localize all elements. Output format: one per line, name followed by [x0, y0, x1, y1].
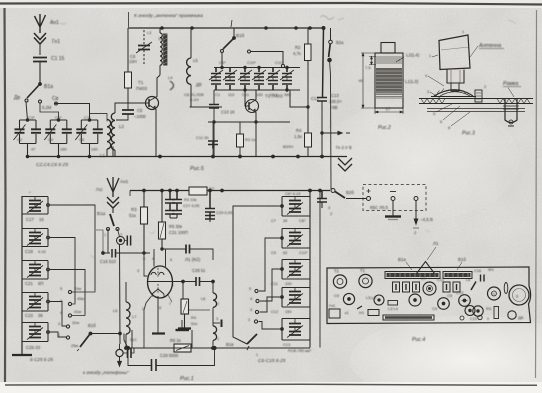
- svg-text:В1а: В1а: [97, 211, 106, 216]
- tank section 3 (C6* / C7): [75, 119, 103, 157]
- svg-text:L1: L1: [100, 153, 105, 158]
- svg-text:С29 5000: С29 5000: [160, 353, 179, 358]
- coupling loop mark: [170, 81, 174, 90]
- leader В1б: [457, 262, 462, 270]
- border frame bottom: [5, 384, 537, 385]
- svg-text:С8*: С8*: [299, 218, 306, 223]
- right bank rail: [309, 189, 312, 347]
- caps C29 pair: [205, 191, 215, 223]
- coil former top nub: [381, 43, 395, 54]
- emitter wire to bus: [155, 118, 157, 157]
- caps right pair at bus: [317, 191, 327, 209]
- wire collector to R2: [287, 90, 308, 107]
- small caps row C12 C14: [443, 282, 460, 292]
- svg-text:В1в: В1в: [226, 342, 234, 347]
- svg-text:7: 7: [169, 302, 171, 306]
- leader Л1 top: [427, 247, 436, 260]
- svg-text:Гн 2-У В: Гн 2-У В: [336, 145, 352, 150]
- wire L5 bottom to T2 emitter region: [190, 106, 222, 108]
- coil L8 output: [213, 282, 217, 348]
- svg-text:6,2М: 6,2М: [42, 105, 52, 110]
- bank staircase wires: [259, 238, 281, 329]
- svg-text:С17: С17: [26, 217, 34, 222]
- svg-text:2: 2: [217, 302, 219, 306]
- vertical cap bar right: [504, 283, 508, 294]
- grid line and junction: [172, 280, 214, 283]
- svg-text:С12: С12: [271, 309, 278, 314]
- potentiometer R6: [174, 344, 191, 352]
- arrow -4,5В: [413, 201, 419, 229]
- svg-text:L4: L4: [168, 75, 173, 80]
- svg-text:С2,С4,С6 6-25: С2,С4,С6 6-25: [36, 162, 68, 168]
- svg-text:3: 3: [216, 317, 218, 321]
- stem block: [447, 70, 464, 92]
- svg-text:Л1: Л1: [433, 241, 439, 246]
- top supply bus: [128, 12, 325, 30]
- svg-text:С12: С12: [311, 96, 319, 101]
- svg-text:В2а: В2а: [336, 40, 344, 45]
- transistor Т2 circle: [359, 274, 372, 287]
- capacitor C12 on +rail: [317, 28, 327, 134]
- svg-text:С13: С13: [283, 342, 290, 347]
- bank bottom to bus: [310, 340, 320, 348]
- svg-text:L7: L7: [132, 314, 137, 319]
- svg-text:В1б: В1б: [458, 257, 466, 262]
- socket Гн1 (fig1): [107, 197, 119, 213]
- transistor T2: [245, 90, 259, 122]
- cap С5 circle: [343, 293, 354, 304]
- svg-text:6-С25 6-25: 6-С25 6-25: [30, 357, 53, 362]
- svg-text:С16: С16: [474, 269, 481, 273]
- cap pair C16*/C17: [266, 68, 280, 91]
- svg-text:1: 1: [172, 283, 174, 287]
- tank C21/C22: [22, 261, 49, 280]
- svg-text:40: 40: [359, 78, 364, 83]
- svg-text:100: 100: [285, 281, 292, 286]
- svg-text:5: 5: [60, 286, 62, 291]
- svg-text:31м: 31м: [72, 320, 79, 325]
- battery terminal +: [367, 189, 371, 201]
- border frame left: [5, 8, 6, 382]
- border frame right: [536, 10, 537, 378]
- svg-text:Т2: Т2: [334, 269, 340, 274]
- svg-text:С7: С7: [271, 218, 276, 223]
- svg-text:R4: R4: [296, 128, 302, 133]
- capacitor C10 emitter: [209, 90, 219, 122]
- svg-text:С13: С13: [456, 290, 464, 295]
- tank section 2 (C4* / C5): [44, 119, 72, 157]
- svg-text:16: 16: [39, 217, 44, 222]
- antenna Ан1 (fig1): [107, 177, 119, 197]
- svg-text:2: 2: [248, 318, 250, 322]
- svg-text:Рис.5: Рис.5: [190, 166, 205, 172]
- output arrow to receiver: [322, 131, 350, 134]
- svg-text:С6* 4-15: С6* 4-15: [285, 191, 300, 196]
- svg-text:L3: L3: [147, 31, 151, 35]
- svg-text:Дв: Дв: [14, 95, 20, 101]
- trimmer С7 circle: [423, 282, 436, 295]
- svg-text:L5,L6: L5,L6: [366, 295, 377, 300]
- svg-text:КБС Л0,5: КБС Л0,5: [370, 205, 389, 210]
- svg-text:С6-С15 6-25: С6-С15 6-25: [258, 358, 286, 364]
- svg-text:Т2 П403: Т2 П403: [265, 94, 283, 99]
- winding band 2 dense: [376, 68, 402, 94]
- svg-text:Т1: Т1: [360, 268, 366, 273]
- svg-text:5: 5: [249, 287, 251, 291]
- switch В1а (fig1): [107, 214, 120, 231]
- battery dashed box: [363, 185, 426, 211]
- bank tank 4: [281, 288, 310, 308]
- ground R4: [176, 320, 190, 330]
- tank C19/C20: [22, 229, 49, 247]
- L8 diagonal mark: [471, 282, 476, 291]
- svg-text:R2: R2: [209, 186, 215, 191]
- svg-text:8: 8: [159, 306, 161, 310]
- svg-text:0: 0: [487, 317, 489, 321]
- bank tank 2: [281, 229, 310, 249]
- svg-text:R4: R4: [191, 315, 197, 320]
- svg-text:Св: Св: [52, 96, 59, 102]
- svg-text:4,7к: 4,7к: [293, 51, 301, 56]
- svg-text:150: 150: [285, 309, 292, 314]
- cap pair C8*/C9: [209, 68, 223, 91]
- coil L2: [111, 103, 122, 157]
- svg-text:С2: С2: [17, 137, 23, 142]
- caps C28 pair: [170, 191, 182, 219]
- leader L1(L3): [403, 79, 404, 81]
- terminal circle top right: [331, 189, 335, 193]
- winding band 3: [376, 95, 402, 99]
- svg-text:С9*: С9*: [219, 60, 226, 65]
- T2 tank cap bank top bus: [214, 66, 300, 68]
- svg-text:С9: С9: [432, 306, 438, 311]
- wire R4 to coil: [189, 309, 211, 311]
- svg-text:ДВ: ДВ: [196, 82, 202, 87]
- svg-text:L8: L8: [466, 278, 470, 282]
- svg-text:С5*: С5*: [55, 115, 62, 120]
- switch В2б: [335, 192, 366, 199]
- tank C23/C24: [22, 293, 49, 312]
- svg-text:62: 62: [283, 250, 287, 255]
- tank bank bottom bus: [214, 89, 300, 91]
- small rect mid: [388, 301, 398, 306]
- ground cathode: [152, 325, 165, 334]
- svg-text:Гн1: Гн1: [96, 187, 103, 192]
- svg-text:Рис.3: Рис.3: [462, 131, 475, 137]
- svg-text:С10 1К: С10 1К: [221, 110, 235, 115]
- plug symbol: [117, 229, 131, 246]
- svg-text:к1: к1: [345, 311, 349, 315]
- svg-text:L8: L8: [201, 297, 205, 301]
- switch В1в blade: [247, 334, 257, 350]
- svg-text:С10*: С10*: [247, 60, 256, 65]
- capacitor C5: [116, 103, 141, 120]
- resistor R1: [125, 72, 132, 104]
- svg-text:Ан1: Ан1: [50, 20, 59, 26]
- svg-text:160: 160: [256, 92, 263, 97]
- right vertical wire: [319, 189, 322, 345]
- ground bar: [12, 354, 32, 356]
- svg-text:С6: С6: [79, 137, 85, 142]
- item R3 bar: [494, 307, 499, 319]
- svg-text:С11: С11: [271, 281, 278, 286]
- caps C27 pair: [165, 191, 175, 219]
- svg-text:С13: С13: [331, 93, 339, 98]
- svg-text:П403: П403: [136, 86, 147, 91]
- svg-text:L2: L2: [119, 124, 124, 129]
- svg-text:360: 360: [284, 92, 291, 97]
- bottom bus fig5: [113, 122, 347, 158]
- cap С9 circle: [409, 294, 421, 306]
- frame rod (braided): [419, 99, 533, 104]
- tube socket circle: [488, 287, 501, 300]
- svg-text:Рамка: Рамка: [503, 81, 518, 87]
- svg-text:В2б: В2б: [346, 190, 354, 195]
- svg-text:4-15: 4-15: [38, 250, 46, 254]
- svg-text:С28 51: С28 51: [192, 268, 206, 273]
- svg-text:С31 100П: С31 100П: [169, 230, 188, 235]
- tank section 1 (C2* / C3): [14, 102, 42, 157]
- svg-text:9: 9: [143, 257, 145, 261]
- coil L4 with core: [160, 28, 167, 75]
- leader lines with numbers: [428, 46, 514, 126]
- svg-text:7,5: 7,5: [365, 65, 371, 70]
- dome mount: [431, 89, 482, 103]
- cap pair C12*/C13: [238, 68, 252, 91]
- L5 L6 circle: [374, 295, 384, 305]
- svg-text:51к: 51к: [191, 321, 197, 326]
- switch В1б: [221, 28, 285, 68]
- svg-text:С27 0,05: С27 0,05: [183, 203, 200, 208]
- svg-text:С1: С1: [215, 92, 221, 97]
- svg-text:С19: С19: [25, 249, 33, 254]
- capacitor C1: [33, 58, 47, 85]
- svg-text:С15: С15: [470, 317, 477, 321]
- svg-text:L1(L3): L1(L3): [405, 79, 419, 84]
- svg-text:К гнезду „антенна" приемника: К гнезду „антенна" приемника: [134, 13, 203, 19]
- socket Гн1: [34, 33, 46, 55]
- svg-text:С11*: С11*: [275, 60, 284, 65]
- resistor R4: [208, 122, 312, 157]
- antenna Ан1: [35, 14, 46, 33]
- svg-text:С3*: С3*: [28, 115, 35, 120]
- capacitor C29 loop: [128, 348, 215, 371]
- svg-text:С12: С12: [437, 278, 444, 282]
- cap С13 circle: [459, 295, 471, 307]
- svg-text:3: 3: [137, 269, 139, 273]
- trimmer C6: [136, 30, 152, 64]
- wire contacts to tank tops: [39, 100, 90, 120]
- emitter bus: [208, 121, 290, 125]
- coupling cap C31: [162, 245, 213, 261]
- capacitor C16: [96, 229, 150, 258]
- resistor R3: [141, 191, 151, 255]
- svg-text:R5 30к: R5 30к: [169, 224, 182, 229]
- svg-text:С29 0,05: С29 0,05: [216, 210, 233, 215]
- svg-text:+8В: +8В: [330, 105, 338, 110]
- winding band 1: [376, 57, 402, 63]
- tuning gang bar left: [385, 272, 440, 279]
- svg-text:17: 17: [386, 107, 391, 112]
- svg-text:6-1Н: 6-1Н: [190, 97, 199, 102]
- top bus fig1: [130, 189, 330, 196]
- svg-text:R2: R2: [295, 45, 301, 50]
- battery terminal right: [414, 197, 418, 201]
- circle ДВ right: [508, 311, 516, 319]
- coil L1: [90, 114, 111, 157]
- dim line left tall: [361, 53, 375, 108]
- svg-text:L6: L6: [113, 308, 118, 313]
- svg-text:L3 L4: L3 L4: [388, 306, 399, 311]
- cap С15 circle: [473, 306, 483, 316]
- svg-text:Рис.1: Рис.1: [180, 376, 194, 382]
- border frame top: [0, 3, 542, 5]
- svg-text:С7: С7: [421, 276, 427, 281]
- svg-text:Т1: Т1: [138, 80, 144, 85]
- tuning gang bar right: [443, 272, 472, 279]
- grid cap C28 51: [196, 277, 200, 286]
- svg-text:С4: С4: [48, 137, 54, 142]
- dim line left small: [369, 57, 376, 65]
- right clamp: [503, 98, 519, 126]
- switch В2а: [328, 28, 333, 190]
- svg-text:Ан1: Ан1: [120, 179, 129, 184]
- band contacts column: [66, 290, 95, 339]
- svg-text:С1 15: С1 15: [51, 56, 65, 62]
- center triangle bump: [417, 262, 435, 274]
- svg-text:−4,5 В: −4,5 В: [420, 217, 433, 222]
- bottom bus fig1: [124, 330, 310, 350]
- cap pair C18/C19: [280, 68, 294, 91]
- coil former body: [375, 53, 403, 108]
- staircase wires to band contacts: [50, 205, 96, 337]
- svg-text:2: 2: [142, 307, 144, 311]
- svg-text:ФН: ФН: [488, 268, 494, 272]
- svg-text:С5: С5: [137, 108, 143, 113]
- PCB outline: [327, 267, 531, 324]
- svg-text:R3 1к: R3 1к: [245, 137, 255, 142]
- part Н1 rect: [368, 310, 379, 316]
- phone jack: [116, 344, 134, 366]
- svg-text:к гнезду „телефоны": к гнезду „телефоны": [83, 370, 129, 375]
- bank tank 5: [281, 319, 310, 341]
- big coil circle: [509, 285, 529, 305]
- coil L5: [161, 27, 191, 107]
- left bus: [21, 196, 23, 355]
- cap С11 circle: [438, 298, 450, 310]
- svg-text:100,0+: 100,0+: [329, 99, 342, 104]
- svg-text:41м: 41м: [74, 309, 81, 314]
- svg-text:Н1: Н1: [359, 310, 365, 315]
- svg-text:=1000: =1000: [134, 114, 146, 119]
- svg-text:Гн1: Гн1: [329, 303, 336, 308]
- svg-text:160: 160: [91, 147, 98, 152]
- svg-text:110: 110: [228, 92, 235, 97]
- bank tank 3: [281, 260, 310, 280]
- svg-text:В1б: В1б: [88, 323, 96, 328]
- ground from mid terminal: [385, 201, 401, 220]
- svg-text:С11: С11: [242, 92, 250, 97]
- transistor T1: [141, 75, 160, 118]
- svg-text:Л1 (К2): Л1 (К2): [185, 257, 201, 262]
- socket Гн1 square: [329, 309, 340, 318]
- svg-text:70м: 70м: [74, 286, 81, 291]
- leader В1а: [406, 262, 412, 270]
- svg-text:В1а: В1а: [398, 257, 406, 262]
- svg-text:R6 2к: R6 2к: [170, 338, 181, 343]
- svg-text:51С: 51С: [130, 338, 137, 342]
- svg-text:R3 10к: R3 10к: [184, 197, 197, 202]
- small bar R1: [357, 306, 362, 309]
- svg-text:3: 3: [250, 308, 252, 312]
- svg-text:С23: С23: [25, 313, 33, 318]
- svg-text:1: 1: [256, 353, 258, 357]
- resistor R2: [305, 28, 312, 157]
- bank tank 1: [281, 197, 310, 217]
- small circle: [478, 315, 482, 319]
- svg-text:6П: 6П: [38, 281, 43, 286]
- lower thin bar: [427, 109, 525, 112]
- svg-text:Рис.4: Рис.4: [412, 337, 425, 343]
- svg-text:1: 1: [217, 337, 219, 341]
- dim bottom 17: [375, 108, 403, 114]
- svg-text:С10*: С10*: [299, 250, 308, 255]
- svg-text:6: 6: [170, 258, 172, 262]
- tube pin wires: [144, 249, 172, 348]
- tank C25/C26: [22, 323, 49, 342]
- cap pair C14/C15: [252, 68, 266, 91]
- tube Л1: [144, 253, 173, 298]
- coil tap terminal: [213, 320, 222, 328]
- ground R4b: [178, 327, 191, 329]
- resistor R4 cathode: [181, 282, 189, 329]
- svg-text:51к: 51к: [129, 213, 136, 218]
- svg-text:Гн1: Гн1: [52, 39, 60, 45]
- svg-text:4: 4: [250, 297, 252, 301]
- antenna base box: [439, 35, 470, 70]
- bank contacts: [254, 289, 259, 323]
- svg-text:2: 2: [120, 233, 122, 237]
- resistor R2 horizontal on bus: [189, 187, 207, 195]
- svg-text:В1б: В1б: [236, 33, 245, 38]
- svg-text:Рис.2: Рис.2: [378, 125, 391, 131]
- svg-text:С16 510: С16 510: [100, 259, 117, 264]
- svg-text:L2(L4): L2(L4): [406, 53, 420, 58]
- svg-text:Антенна: Антенна: [478, 43, 501, 49]
- cap pair C10/C11: [223, 68, 237, 91]
- svg-text:В1а: В1а: [44, 84, 53, 90]
- svg-text:L4: L4: [159, 36, 165, 41]
- svg-text:С7*: С7*: [84, 115, 91, 120]
- svg-text:РСВ-785 мкГ: РСВ-785 мкГ: [288, 348, 312, 353]
- svg-text:4: 4: [152, 257, 154, 261]
- svg-text:R3: R3: [486, 306, 492, 311]
- transistor Т1 circle: [333, 275, 346, 288]
- svg-text:ВЗЛ/т: ВЗЛ/т: [283, 144, 294, 149]
- bottom bus left extension: [26, 155, 113, 158]
- leader L2(L4): [396, 57, 404, 62]
- wire bus left end down: [127, 28, 129, 72]
- svg-text:С11 30: С11 30: [196, 135, 209, 140]
- svg-text:25м: 25м: [71, 343, 78, 348]
- svg-text:L5: L5: [193, 58, 198, 63]
- svg-text:С9: С9: [271, 250, 276, 255]
- svg-text:ДВ: ДВ: [518, 315, 524, 320]
- switch В1б blade: [77, 332, 120, 351]
- transformer L6 L7: [119, 244, 130, 348]
- svg-text:С8: С8: [447, 293, 453, 298]
- switch В1а (band switch): [25, 83, 58, 105]
